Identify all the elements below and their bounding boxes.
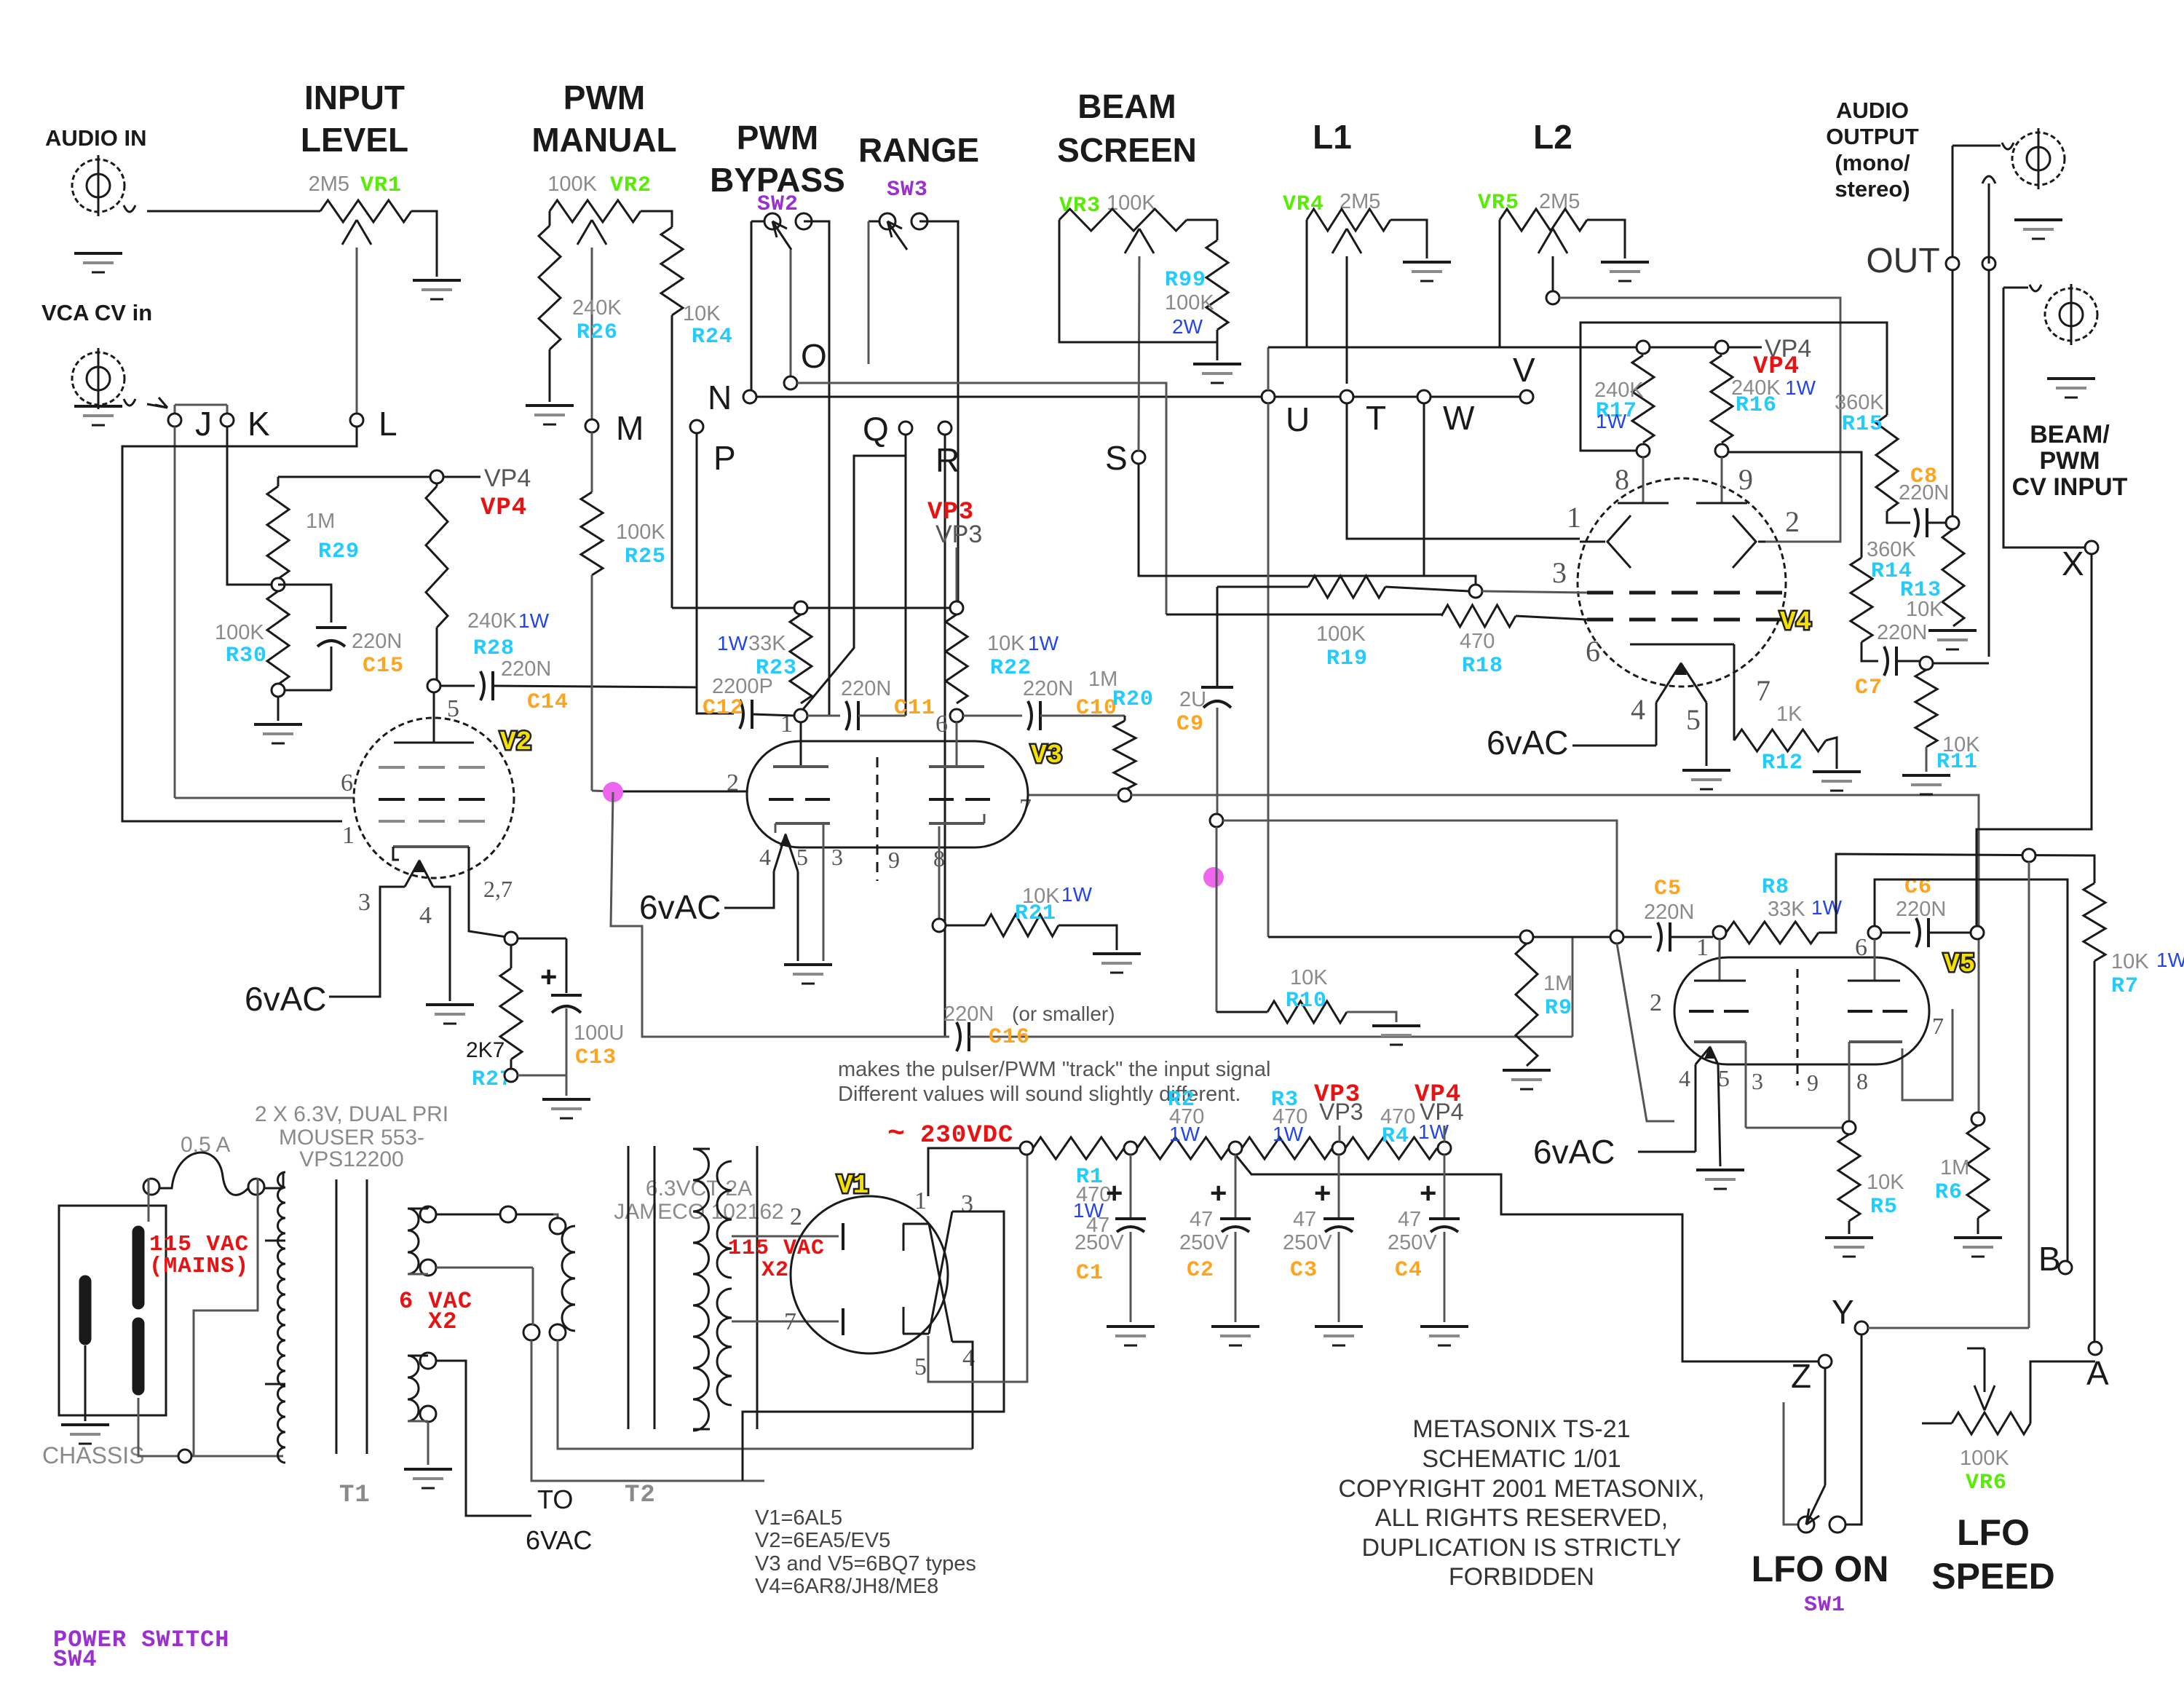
svg-text:10K: 10K	[683, 302, 721, 325]
capacitor C16 220N	[611, 792, 949, 1037]
svg-text:V: V	[1513, 351, 1535, 389]
resistor R18 470	[1166, 614, 1441, 616]
svg-text:4: 4	[419, 902, 432, 929]
tube V4 envelope	[1578, 478, 1786, 687]
svg-text:1W: 1W	[1273, 1123, 1304, 1145]
wire 6vAC to V4 heater	[1572, 745, 1656, 747]
svg-text:BEAM/: BEAM/	[2030, 421, 2110, 448]
resistor R26 240K	[549, 211, 551, 226]
wire VP3 stub	[956, 547, 958, 601]
resistor R4 470 1W	[1345, 1137, 1437, 1159]
wire 6vac rails right	[558, 1340, 973, 1449]
capacitor C5 220N	[1623, 936, 1652, 938]
resistor R2 470 1W	[1137, 1137, 1229, 1159]
ground (R10)	[1372, 1024, 1420, 1027]
resistor R8 33K 1W	[1726, 922, 1819, 944]
transformer T2 primary	[756, 1146, 759, 1429]
node R16 bottom (pin9)	[1715, 444, 1728, 457]
V5 right plate	[1874, 939, 1876, 981]
svg-text:1: 1	[914, 1187, 927, 1214]
svg-text:VR4: VR4	[1283, 192, 1324, 217]
svg-text:1W: 1W	[2156, 949, 2184, 971]
wire VR2 wiper to node M	[591, 248, 593, 419]
capacitor C8 220N	[1887, 511, 1910, 523]
svg-text:R20: R20	[1112, 687, 1154, 712]
wire SW3 right down to R22 bus node	[919, 221, 958, 608]
wire R24 down to R23/R22 bus	[671, 315, 673, 608]
jack BEAM/PWM CV	[2003, 287, 2028, 289]
node C7/R11	[1920, 657, 1933, 670]
ground (VR5)	[1601, 261, 1649, 264]
wire VR4 left to VP4 line	[1306, 220, 1308, 347]
SW4 contact bar 2	[132, 1232, 145, 1303]
wire Q down to C11 line	[905, 435, 907, 716]
wire R9/C5 bus	[1268, 936, 1617, 938]
node Q	[899, 422, 912, 435]
svg-text:250V: 250V	[1283, 1231, 1332, 1254]
V4 left grid arrow	[1607, 515, 1631, 568]
svg-text:ALL RIGHTS RESERVED,: ALL RIGHTS RESERVED,	[1375, 1504, 1668, 1532]
capacitor C12 2200P	[697, 682, 734, 713]
wire O to R18 drop	[797, 383, 1166, 614]
svg-text:(or smaller): (or smaller)	[1012, 1003, 1115, 1025]
svg-text:R7: R7	[2111, 974, 2139, 999]
node V3 pin 1	[794, 709, 807, 722]
resistor R21 10K 1W	[946, 925, 985, 927]
jack AUDIO IN	[72, 159, 124, 212]
node chain 4	[1332, 1142, 1345, 1155]
svg-text:T1: T1	[339, 1482, 371, 1509]
svg-text:7: 7	[784, 1308, 796, 1335]
node R29/R30 junction	[272, 578, 285, 591]
jack VCA CV in	[72, 352, 124, 405]
svg-text:T: T	[1366, 399, 1386, 437]
resistor R9 1M	[1516, 944, 1538, 1066]
svg-text:33K: 33K	[1768, 898, 1805, 921]
node R22 top	[950, 601, 963, 614]
wire C9 node down to R10	[1216, 827, 1218, 1012]
svg-text:5: 5	[1718, 1065, 1730, 1091]
node V3 pin7 / R20 bottom	[1118, 788, 1131, 802]
V3 left plate	[800, 722, 802, 767]
svg-text:1: 1	[342, 822, 355, 849]
svg-text:stereo): stereo)	[1835, 176, 1910, 202]
svg-text:RANGE: RANGE	[858, 131, 979, 169]
resistor R23 33K 1W	[790, 614, 812, 703]
wire C6-left stub to B rail	[1875, 879, 2068, 1262]
wire vca jack to J/K	[124, 399, 135, 406]
wire Y riser	[2028, 862, 2030, 1328]
svg-text:~: ~	[887, 1118, 906, 1151]
ground (R13)	[1928, 629, 1977, 632]
V2 heater pin3 to 6vAC	[329, 887, 405, 997]
ground (6vac secondary)	[404, 1468, 452, 1471]
wire T2 to V1 pin7	[732, 1321, 839, 1323]
svg-text:2M5: 2M5	[309, 173, 349, 196]
svg-text:250V: 250V	[1388, 1231, 1437, 1254]
svg-text:VCA CV in: VCA CV in	[41, 300, 152, 325]
svg-text:R4: R4	[1382, 1124, 1409, 1149]
svg-text:1W: 1W	[1169, 1123, 1200, 1145]
wire SW3 pole stub	[868, 221, 870, 364]
wire VP3 node stub	[1339, 1126, 1341, 1142]
node A	[2089, 1342, 2102, 1355]
svg-text:9: 9	[1738, 463, 1753, 496]
svg-text:1W: 1W	[1061, 883, 1093, 906]
svg-text:6: 6	[341, 770, 353, 796]
node C9 bottom	[1210, 814, 1223, 827]
V5 left cathode	[1694, 1040, 1746, 1043]
svg-text:SW2: SW2	[757, 192, 799, 217]
capacitor C2 47/250V	[1235, 1155, 1237, 1218]
wire VR4 right to ground	[1390, 220, 1427, 258]
node P	[690, 420, 703, 433]
svg-text:PWM: PWM	[2039, 447, 2100, 475]
resistor R12 1K	[1734, 730, 1826, 751]
svg-text:+: +	[1314, 1177, 1331, 1209]
svg-text:W: W	[1443, 399, 1475, 437]
wire R19 left to C9	[1216, 587, 1219, 687]
svg-text:VP4: VP4	[484, 464, 531, 492]
transformer T2 core	[628, 1146, 630, 1429]
svg-text:C15: C15	[363, 654, 404, 679]
svg-text:100K: 100K	[616, 521, 665, 544]
svg-text:220N: 220N	[1877, 621, 1927, 644]
svg-text:C1: C1	[1076, 1261, 1104, 1286]
V3 right cathode	[929, 822, 984, 825]
node V3 pin8 / R21	[933, 919, 946, 932]
svg-text:O: O	[801, 337, 827, 375]
ground (out jack 1)	[2014, 218, 2062, 221]
svg-text:2 X 6.3V, DUAL PRI: 2 X 6.3V, DUAL PRI	[255, 1102, 448, 1126]
svg-text:Y: Y	[1832, 1293, 1854, 1331]
svg-text:VP4: VP4	[1420, 1099, 1463, 1125]
svg-text:+: +	[1420, 1177, 1436, 1209]
svg-text:R99: R99	[1165, 268, 1206, 293]
node chain 2	[1124, 1142, 1137, 1155]
svg-text:1K: 1K	[1776, 703, 1803, 726]
svg-text:9: 9	[1807, 1070, 1819, 1096]
node U	[1262, 390, 1275, 403]
svg-text:R16: R16	[1736, 393, 1777, 418]
svg-text:SCREEN: SCREEN	[1057, 131, 1197, 169]
resistor R99 100K 2W	[1216, 220, 1219, 240]
wire VR4 wiper to T	[1346, 256, 1348, 384]
svg-text:R15: R15	[1842, 412, 1883, 437]
resistor R27 2K7	[510, 945, 513, 968]
V3 heater pin5 to ground	[797, 871, 799, 961]
svg-text:SW3: SW3	[887, 178, 928, 202]
svg-text:V1=6AL5: V1=6AL5	[755, 1506, 842, 1530]
svg-text:R: R	[935, 441, 960, 479]
svg-text:R8: R8	[1762, 875, 1789, 900]
capacitor C15 220N	[278, 585, 331, 622]
svg-text:1W: 1W	[1028, 632, 1059, 655]
svg-text:VR1: VR1	[360, 173, 402, 198]
svg-text:R5: R5	[1870, 1195, 1898, 1219]
wire N to V node	[756, 396, 1527, 398]
transformer T2 secondary	[693, 1149, 708, 1431]
potentiometer VR1 2M5	[320, 200, 411, 222]
V3 left cathode	[775, 822, 830, 825]
wire Z to SW1 lever	[1824, 1368, 1827, 1485]
node V2 output 2,7	[505, 932, 518, 945]
svg-text:P: P	[713, 439, 736, 477]
svg-text:100K: 100K	[1165, 291, 1214, 315]
svg-text:R11: R11	[1936, 750, 1978, 775]
svg-text:C7: C7	[1855, 676, 1883, 700]
svg-text:3: 3	[961, 1190, 973, 1217]
node R30 bottom	[272, 684, 285, 697]
wire R8 right to R7 rail	[1819, 854, 2088, 933]
svg-text:8: 8	[933, 845, 945, 871]
capacitor C1 47/250V	[1130, 1155, 1132, 1218]
V2 cathode	[393, 845, 469, 848]
svg-text:4: 4	[1679, 1065, 1690, 1091]
wire Y to SW1 right	[1845, 1335, 1861, 1525]
V5 heater left to 6vAC / Z riser	[1695, 1064, 1697, 1152]
node C6 right	[1971, 926, 1984, 939]
V5 pin7 box	[1902, 1009, 1952, 1100]
svg-text:1W: 1W	[1596, 410, 1627, 432]
jack audio output 2 wire	[1988, 183, 1990, 264]
wire VR1 wiper to node L	[356, 248, 358, 414]
wire VP4 line	[1268, 347, 1762, 349]
svg-text:C13: C13	[575, 1045, 617, 1070]
svg-text:J: J	[195, 405, 212, 443]
svg-text:S: S	[1105, 439, 1128, 477]
resistor R25 100K	[581, 492, 603, 575]
junction dot (V3 pin2)	[603, 782, 623, 802]
V3 right plate	[956, 722, 958, 767]
V5 pin8 lead to R5	[1848, 1042, 1851, 1121]
capacitor C13 100U electrolytic	[566, 938, 568, 993]
wire fuse to T1	[264, 1187, 283, 1190]
capacitor C4 47/250V	[1444, 1155, 1446, 1218]
wire VR3 left end loop	[1059, 220, 1217, 342]
svg-text:1M: 1M	[306, 510, 335, 533]
wire V3 pin7 line	[1028, 794, 1118, 796]
V4 right grid arrow	[1733, 515, 1756, 568]
V5 separator dashed	[1797, 969, 1799, 1086]
wire P down to C12	[696, 433, 698, 682]
node C5 left	[1610, 930, 1623, 944]
wire R20 node to R6 column	[1131, 795, 1979, 1112]
wire VR5 right to ground	[1587, 220, 1625, 258]
svg-text:1W: 1W	[1811, 896, 1843, 919]
svg-text:360K: 360K	[1835, 391, 1884, 414]
wire chain output to LFO Z	[1235, 1155, 1819, 1361]
switch SW2	[751, 221, 772, 223]
wire VR5 left to VP4 line	[1499, 220, 1501, 347]
node R16 top	[1715, 341, 1728, 354]
svg-text:VR6: VR6	[1966, 1471, 2007, 1495]
svg-text:10K: 10K	[987, 632, 1025, 655]
svg-text:100K: 100K	[1960, 1447, 2009, 1470]
wire fuse right down to bottom rail	[194, 1178, 258, 1456]
node chain 5	[1438, 1142, 1451, 1155]
svg-text:C5: C5	[1654, 877, 1682, 901]
V4 cathode lead to R12	[1733, 644, 1736, 740]
svg-text:10K: 10K	[1906, 598, 1944, 621]
svg-text:SCHEMATIC 1/01: SCHEMATIC 1/01	[1422, 1445, 1621, 1473]
wire pin3 into V4	[1482, 591, 1587, 593]
svg-text:VR2: VR2	[610, 173, 652, 198]
svg-text:SPEED: SPEED	[1931, 1556, 2055, 1597]
ground (V4 heater)	[1682, 769, 1730, 772]
svg-text:10K: 10K	[2111, 950, 2149, 973]
svg-text:5: 5	[914, 1353, 927, 1380]
svg-text:VP3: VP3	[1319, 1099, 1363, 1125]
node V5 pin1	[1713, 926, 1726, 939]
svg-text:7: 7	[1932, 1013, 1944, 1039]
V3 heater	[774, 834, 786, 871]
svg-text:2: 2	[790, 1203, 802, 1230]
wire SW2 lever to node O	[790, 250, 792, 376]
T1 secondary upper 6VAC	[408, 1209, 419, 1274]
svg-text:+: +	[1106, 1177, 1123, 1209]
wire K down to R29/R30 junction	[227, 427, 272, 585]
V1 pin4 path	[952, 1342, 973, 1449]
wire R23/R22 bus	[672, 607, 958, 609]
svg-text:R30: R30	[226, 644, 267, 668]
node R6 top	[1971, 1112, 1985, 1126]
wire VP4 node stub	[1444, 1126, 1446, 1142]
transformer T1 primary winding	[282, 1172, 285, 1188]
svg-text:(MAINS): (MAINS)	[149, 1254, 249, 1279]
svg-text:X2: X2	[428, 1308, 457, 1335]
wire audio-in to VR1	[124, 205, 135, 212]
node O	[784, 376, 797, 390]
transformer T1 core	[336, 1179, 338, 1454]
svg-text:TO: TO	[537, 1484, 573, 1514]
resistor R3 470 1W	[1242, 1137, 1332, 1159]
ground (vca jack)	[74, 405, 122, 408]
junction dot 2	[1203, 867, 1224, 887]
svg-text:SW1: SW1	[1804, 1593, 1845, 1618]
node R27 bottom	[505, 1069, 518, 1082]
wire C9 node to C5 bus riser	[1223, 821, 1617, 930]
ground (R11)	[1902, 774, 1950, 777]
wire upper 6vac to right	[436, 1214, 508, 1216]
svg-text:R19: R19	[1326, 647, 1368, 671]
resistor R24 10K	[641, 211, 672, 227]
resistor R15 360K	[1876, 415, 1898, 511]
ground (VR1)	[413, 279, 461, 282]
switch SW3	[869, 221, 887, 223]
svg-text:R24: R24	[692, 325, 733, 349]
resistor R29 1M	[277, 477, 280, 486]
tube V5 envelope	[1674, 957, 1929, 1064]
node C6 left (pin6)	[1868, 926, 1881, 939]
svg-text:CHASSIS: CHASSIS	[42, 1442, 144, 1468]
svg-text:V4=6AR8/JH8/ME8: V4=6AR8/JH8/ME8	[755, 1575, 938, 1598]
V1 pin3 path	[743, 1211, 1004, 1481]
wire fuse left into box	[148, 1178, 150, 1222]
ground (R12)	[1813, 770, 1861, 773]
V1 pin5/node1 path	[928, 1155, 1027, 1382]
svg-text:1W: 1W	[518, 609, 550, 632]
wire OUT left	[1952, 146, 1954, 516]
node R17 bottom (pin8)	[1637, 444, 1650, 457]
svg-text:220N: 220N	[352, 630, 402, 653]
svg-text:R9: R9	[1545, 996, 1572, 1021]
V2 grid dashes row1	[379, 766, 405, 769]
svg-text:VR5: VR5	[1478, 191, 1519, 216]
svg-text:V2: V2	[500, 727, 531, 757]
ground (V5 heater)	[1696, 1169, 1744, 1171]
svg-text:makes the pulser/PWM "track" t: makes the pulser/PWM "track" the input s…	[838, 1058, 1270, 1081]
svg-text:OUT: OUT	[1866, 242, 1939, 280]
svg-text:X2: X2	[761, 1258, 789, 1283]
svg-text:BEAM: BEAM	[1077, 87, 1176, 125]
svg-text:1M: 1M	[1543, 972, 1572, 995]
svg-text:R6: R6	[1935, 1180, 1963, 1205]
capacitor C10 220N	[963, 715, 1022, 717]
svg-text:4: 4	[759, 844, 771, 870]
wire SW2 left to node N	[751, 221, 753, 390]
svg-text:6vAC: 6vAC	[245, 980, 326, 1018]
svg-text:220N: 220N	[1896, 898, 1946, 921]
svg-text:1: 1	[1567, 501, 1581, 534]
resistor R16 240K 1W	[1711, 355, 1733, 443]
wire SW4 bottom rail to T1	[138, 1398, 283, 1456]
jack audio output 1	[1952, 145, 2001, 147]
svg-text:2: 2	[1785, 505, 1800, 538]
wire Q branch to V3 pin1	[801, 456, 906, 712]
ground (R26)	[526, 404, 574, 407]
node M	[585, 419, 598, 432]
resistor R19 100K	[1217, 586, 1308, 588]
node V	[1520, 390, 1533, 403]
capacitor C6 220N	[1881, 932, 1910, 934]
svg-text:6vAC: 6vAC	[1487, 724, 1568, 762]
wire M down to R25	[591, 432, 593, 492]
wire pin8 node to R15 loop	[1580, 323, 1887, 451]
svg-text:220N: 220N	[1899, 481, 1949, 505]
svg-text:X: X	[2062, 545, 2084, 582]
svg-text:100K: 100K	[215, 621, 264, 644]
svg-text:3: 3	[1752, 1068, 1763, 1094]
svg-text:PWM: PWM	[563, 79, 645, 116]
wire C7 node to OUT-right drop	[1933, 663, 1989, 665]
svg-text:2,7: 2,7	[483, 876, 513, 902]
V1 anode hooks	[903, 1223, 929, 1225]
svg-text:B: B	[2038, 1240, 2061, 1278]
svg-text:C11: C11	[894, 696, 935, 721]
node VP4 feed (V2 plate)	[278, 476, 480, 478]
node R23 top	[794, 601, 807, 614]
ground (R21)	[1093, 952, 1141, 955]
svg-text:Q: Q	[863, 410, 889, 448]
svg-text:2U: 2U	[1179, 688, 1206, 711]
wire lower 6vac to ground	[427, 1422, 430, 1465]
wire U down to R9 bus	[1267, 403, 1270, 937]
ground (R30)	[254, 723, 302, 726]
svg-text:AUDIO: AUDIO	[1836, 98, 1909, 123]
svg-text:MOUSER 553-: MOUSER 553-	[279, 1126, 424, 1150]
ground (R99)	[1193, 363, 1241, 365]
svg-text:V3 and V5=6BQ7 types: V3 and V5=6BQ7 types	[755, 1552, 976, 1575]
V2 heater	[405, 861, 419, 887]
node J	[168, 414, 181, 427]
svg-text:220N: 220N	[501, 657, 551, 681]
V5 left plate	[1719, 939, 1721, 981]
svg-text:VP3: VP3	[935, 521, 982, 548]
svg-text:5: 5	[796, 844, 808, 870]
svg-text:2W: 2W	[1172, 315, 1203, 338]
node R	[938, 422, 951, 435]
